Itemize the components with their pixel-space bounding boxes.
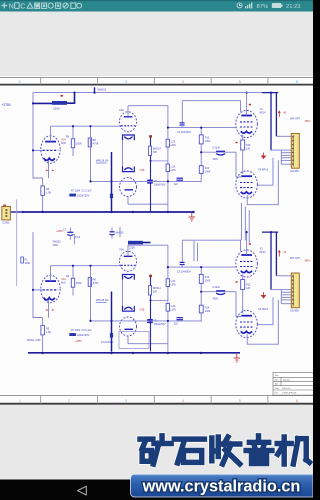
svg-text:2: 2 [68,399,70,403]
svg-text:C: C [20,4,25,11]
svg-text:4: 4 [182,80,184,84]
svg-text:www.crystalradio.cn: www.crystalradio.cn [142,477,301,495]
svg-text:2: 2 [68,80,70,84]
svg-text:3: 3 [125,399,127,403]
svg-text:47uF: 47uF [75,236,81,239]
svg-text:Number: Number [283,378,291,381]
svg-text:Date:: Date: [275,387,280,390]
svg-text:WH111 115K: WH111 115K [27,339,41,342]
svg-text:+285V: +285V [75,340,82,343]
svg-text:3: 3 [125,80,127,84]
svg-text:2200: 2200 [53,107,60,111]
svg-text:1: 1 [19,80,21,84]
svg-text:6: 6 [296,399,298,403]
svg-text:+275V: +275V [2,103,12,107]
svg-text:2200: 2200 [53,244,59,247]
svg-text:2015-5-6: 2015-5-6 [282,388,291,390]
svg-text:2200: 2200 [129,246,135,250]
svg-text:87%: 87% [257,4,269,10]
svg-text:21:23: 21:23 [286,4,301,10]
svg-text:D:\6P14PP.Ddb: D:\6P14PP.Ddb [282,393,297,395]
svg-text:0.1uF/630V: 0.1uF/630V [101,341,114,344]
svg-text:1: 1 [19,399,21,403]
svg-text:5: 5 [239,80,241,84]
svg-text:CON1: CON1 [2,221,10,225]
svg-text:N: N [9,4,14,11]
svg-text:6: 6 [296,80,298,84]
svg-text:+280V: +280V [56,230,63,233]
svg-text:4: 4 [182,399,184,403]
svg-text:File:: File: [275,393,279,395]
svg-text:WH102: WH102 [98,88,107,92]
svg-text:5: 5 [239,399,241,403]
svg-text:100K: 100K [25,262,31,265]
